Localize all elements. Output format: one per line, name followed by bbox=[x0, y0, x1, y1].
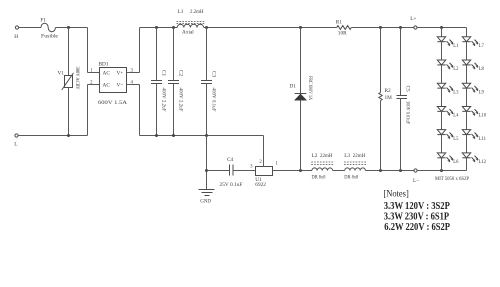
svg-text:L9: L9 bbox=[479, 90, 485, 95]
svg-text:L−: L− bbox=[413, 178, 419, 184]
svg-text:L: L bbox=[14, 142, 17, 148]
svg-text:L7: L7 bbox=[479, 44, 485, 49]
svg-text:C4: C4 bbox=[227, 157, 234, 163]
svg-text:R1: R1 bbox=[336, 19, 343, 25]
svg-text:GND: GND bbox=[200, 200, 211, 205]
svg-text:L2: L2 bbox=[453, 67, 459, 72]
svg-text:F1: F1 bbox=[40, 18, 46, 24]
svg-text:C1: C1 bbox=[161, 70, 167, 77]
svg-text:L3: L3 bbox=[344, 153, 350, 159]
svg-text:DR 8x8: DR 8x8 bbox=[344, 175, 358, 181]
svg-text:400V 0.1uF: 400V 0.1uF bbox=[211, 88, 217, 112]
svg-text:AC: AC bbox=[103, 71, 111, 77]
svg-text:400V 2.2uF: 400V 2.2uF bbox=[161, 88, 167, 112]
svg-text:600V 1.5A: 600V 1.5A bbox=[98, 100, 127, 106]
svg-text:BD1: BD1 bbox=[99, 62, 109, 68]
svg-text:100V 0.01uF: 100V 0.01uF bbox=[405, 101, 411, 124]
svg-text:L6: L6 bbox=[453, 160, 459, 165]
svg-text:C3: C3 bbox=[211, 71, 217, 78]
svg-text:H: H bbox=[14, 34, 18, 40]
svg-text:6922: 6922 bbox=[255, 182, 266, 188]
svg-text:Fusible: Fusible bbox=[41, 34, 59, 40]
svg-text:L8: L8 bbox=[479, 67, 485, 72]
svg-text:L1: L1 bbox=[178, 9, 184, 15]
svg-text:3.3W 230V : 6S1P: 3.3W 230V : 6S1P bbox=[384, 211, 449, 222]
svg-text:L11: L11 bbox=[479, 137, 487, 142]
svg-text:22mH: 22mH bbox=[320, 153, 333, 159]
svg-text:300V ACRV: 300V ACRV bbox=[74, 67, 80, 90]
svg-text:400V 2.2uF: 400V 2.2uF bbox=[178, 88, 184, 112]
svg-text:22mH: 22mH bbox=[353, 153, 366, 159]
svg-text:V1: V1 bbox=[58, 70, 65, 76]
svg-text:AC: AC bbox=[103, 83, 111, 89]
svg-text:Axial: Axial bbox=[182, 30, 194, 36]
svg-text:1M: 1M bbox=[385, 95, 393, 101]
svg-text:6.2W 220V : 6S2P: 6.2W 220V : 6S2P bbox=[384, 222, 450, 233]
svg-text:L+: L+ bbox=[410, 16, 416, 22]
svg-text:V+: V+ bbox=[117, 71, 124, 77]
svg-text:L2: L2 bbox=[312, 153, 318, 159]
svg-text:10R: 10R bbox=[338, 30, 347, 36]
svg-text:[Notes]: [Notes] bbox=[383, 189, 408, 200]
svg-text:L4: L4 bbox=[453, 114, 459, 119]
svg-text:MIT 5050 x 6S2P: MIT 5050 x 6S2P bbox=[435, 176, 469, 182]
svg-text:L1: L1 bbox=[453, 44, 459, 49]
svg-text:FRC 600V 1A: FRC 600V 1A bbox=[307, 76, 313, 100]
svg-text:C2: C2 bbox=[178, 70, 184, 77]
svg-text:V−: V− bbox=[117, 83, 124, 89]
svg-text:L5: L5 bbox=[453, 137, 459, 142]
svg-text:DR 8x8: DR 8x8 bbox=[312, 175, 326, 181]
svg-text:2.2mH: 2.2mH bbox=[190, 9, 204, 15]
svg-text:L12: L12 bbox=[479, 160, 487, 165]
svg-text:L3: L3 bbox=[453, 90, 459, 95]
svg-text:25V 0.1uF: 25V 0.1uF bbox=[220, 182, 243, 188]
svg-text:C5: C5 bbox=[405, 86, 411, 93]
svg-text:3.3W 120V : 3S2P: 3.3W 120V : 3S2P bbox=[384, 201, 450, 212]
svg-text:L10: L10 bbox=[479, 114, 487, 119]
svg-text:D1: D1 bbox=[290, 84, 297, 90]
svg-text:R2: R2 bbox=[385, 88, 392, 94]
